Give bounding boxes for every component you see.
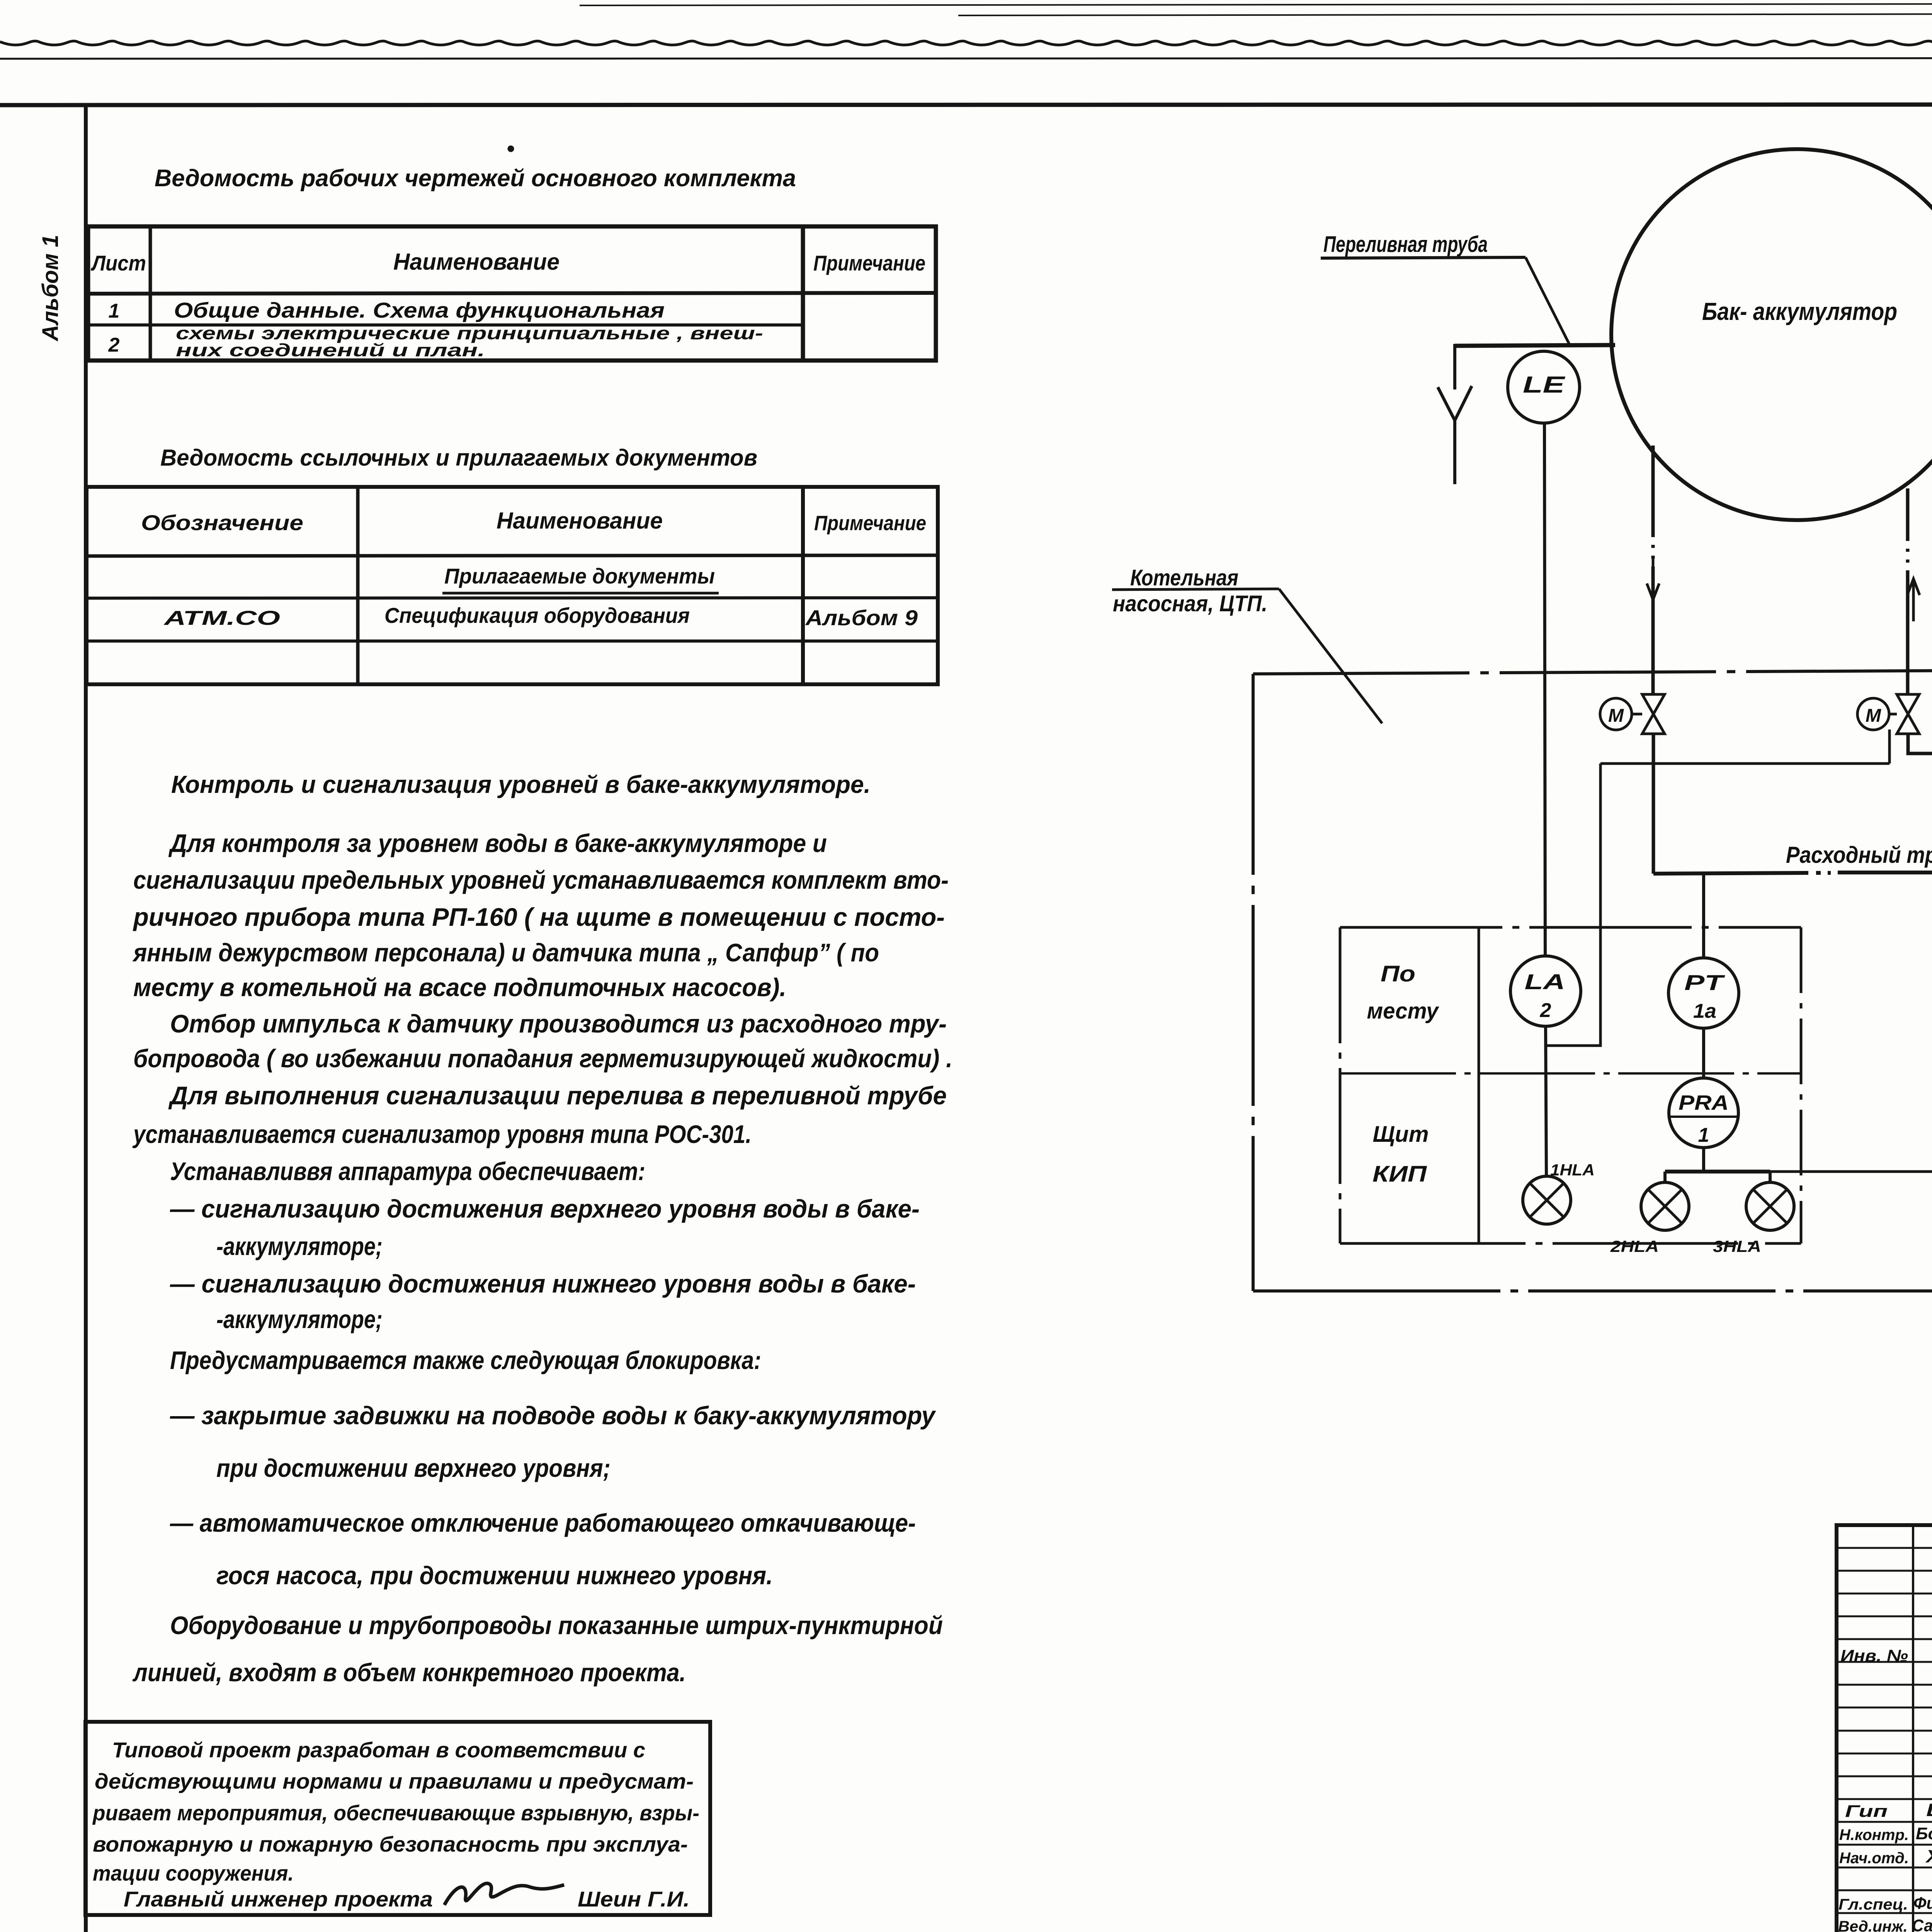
svg-text:Котельная: Котельная [1130, 565, 1238, 590]
pipe consumption line [1653, 872, 1932, 874]
node notes text [132, 770, 952, 1687]
svg-text:2: 2 [108, 334, 120, 356]
motor M2 [1857, 698, 1889, 730]
svg-text:Примечание: Примечание [814, 512, 926, 535]
lamp 2HLA [1610, 1182, 1689, 1255]
svg-text:Общие данные. Схема функцио: Общие данные. Схема функциональная [174, 298, 665, 322]
svg-text:месту в котельной на в: месту в котельной на всасе подпиточных н… [133, 973, 786, 1002]
svg-text:ричного прибора типа РП-: ричного прибора типа РП-160 ( на щите в … [133, 903, 945, 931]
svg-text:при достижении верхнего: при достижении верхнего уровня; [216, 1454, 611, 1482]
svg-text:Лист: Лист [90, 251, 146, 275]
svg-text:1: 1 [109, 300, 120, 322]
svg-text:1: 1 [1698, 1124, 1709, 1146]
instrument LA2 [1510, 956, 1581, 1026]
svg-text:Болотова: Болотова [1916, 1824, 1932, 1843]
svg-text:тации сооружения.: тации сооружения. [93, 1861, 294, 1885]
svg-text:ривает мероприятия, обеспе: ривает мероприятия, обеспечивающие взрыв… [92, 1801, 699, 1825]
pipe tank outlet left [1651, 446, 1655, 694]
node title texts [1840, 1539, 1932, 1932]
svg-text:Спецификация оборудования: Спецификация оборудования [384, 603, 690, 628]
svg-text:сигнализации предельных у: сигнализации предельных уровней устанавл… [133, 866, 949, 894]
instrument LE [1508, 351, 1580, 423]
wire LA to lamp [1546, 1026, 1546, 1176]
svg-text:1a: 1a [1693, 1000, 1716, 1022]
svg-text:3HLA: 3HLA [1713, 1237, 1761, 1255]
svg-text:действующими нормами и: действующими нормами и правилами и преду… [95, 1769, 694, 1793]
svg-text:Хаит: Хаит [1925, 1846, 1932, 1866]
svg-text:Бак- аккумулятор: Бак- аккумулятор [1702, 298, 1897, 325]
svg-text:Саваськова: Саваськова [1912, 1916, 1932, 1932]
svg-text:гося насоса, при достиже: гося насоса, при достижении нижнего уров… [216, 1561, 773, 1590]
node statement box [85, 1722, 710, 1915]
svg-text:По: По [1381, 961, 1415, 986]
svg-text:Нач.отд.: Нач.отд. [1839, 1850, 1909, 1867]
wire [84, 105, 88, 1932]
svg-text:— закрытие задвижки на: — закрытие задвижки на подводе воды к ба… [170, 1401, 936, 1430]
svg-text:M: M [1608, 706, 1624, 726]
svg-text:устанавливается сигнализатор: устанавливается сигнализатор уровня типа… [132, 1120, 752, 1148]
svg-text:Предусматривается также: Предусматривается также следующая блокир… [170, 1346, 761, 1374]
svg-text:2HLA: 2HLA [1610, 1237, 1659, 1255]
svg-text:вопожарную и пожарную бе: вопожарную и пожарную безопасность при э… [93, 1832, 688, 1856]
svg-text:Альбом 9: Альбом 9 [805, 605, 918, 630]
valve V2 motorized [1889, 694, 1919, 734]
motor M1 [1600, 698, 1632, 730]
svg-text:Переливная труба: Переливная труба [1323, 232, 1488, 257]
wire make-up pump to PRA [1770, 917, 1932, 1172]
svg-text:LA: LA [1525, 969, 1565, 994]
svg-text:Ведомость рабочих чертеж: Ведомость рабочих чертежей основного ком… [155, 165, 796, 192]
svg-text:Гип: Гип [1845, 1802, 1888, 1821]
svg-text:Вед.инж.: Вед.инж. [1838, 1918, 1908, 1932]
svg-text:-аккумуляторе;: -аккумуляторе; [216, 1232, 383, 1260]
svg-text:PT: PT [1684, 970, 1726, 995]
wire PT tap [1702, 874, 1705, 958]
ground drain-funnel [1438, 386, 1472, 484]
svg-text:Отбор импульса к датчику: Отбор импульса к датчику производится из… [170, 1009, 947, 1038]
node table2 [87, 487, 938, 684]
svg-text:— сигнализацию достижения: — сигнализацию достижения верхнего уровн… [170, 1194, 920, 1223]
svg-text:КИП: КИП [1372, 1162, 1427, 1187]
svg-text:Главный инженер проекта: Главный инженер проекта [124, 1887, 433, 1911]
svg-text:Типовой проект разработан: Типовой проект разработан в соответствии… [112, 1738, 645, 1762]
node table1 [88, 226, 936, 361]
node location table [1340, 927, 1801, 1243]
svg-text:Расходный трубопровод: Расходный трубопровод [1786, 842, 1932, 868]
pipe tank inlet right [1906, 488, 1910, 694]
node title block [1837, 1525, 1932, 1932]
node boiler-room label [1112, 565, 1382, 723]
svg-text:Гл.спец.: Гл.спец. [1838, 1896, 1908, 1913]
svg-text:Щит: Щит [1373, 1122, 1429, 1147]
svg-text:PRA: PRA [1679, 1091, 1729, 1114]
svg-text:1HLA: 1HLA [1550, 1161, 1595, 1179]
svg-text:Устанавливвя аппаратура: Устанавливвя аппаратура обеспечивает: [170, 1157, 645, 1185]
wire LE signal [1544, 423, 1545, 956]
svg-text:LE: LE [1523, 372, 1566, 398]
node overflow-pipe label [1321, 232, 1570, 345]
wire actuator impulse [1547, 730, 1889, 1046]
svg-text:месту: месту [1367, 998, 1440, 1024]
svg-text:Инв. №: Инв. № [1840, 1646, 1908, 1665]
svg-text:бопровода ( во избежании: бопровода ( во избежании попадания герме… [133, 1044, 952, 1073]
svg-text:2: 2 [1540, 999, 1551, 1022]
svg-text:линией, входят в объем: линией, входят в объем конкретного проек… [132, 1658, 686, 1687]
pipe V1 to consumption line [1652, 734, 1655, 874]
instrument PT1a [1668, 958, 1739, 1028]
wire PRA outputs bus [1665, 1148, 1770, 1182]
wire flow-arrow down [1647, 556, 1659, 600]
svg-text:Оборудование и трубопровод: Оборудование и трубопроводы показанные ш… [170, 1611, 943, 1639]
svg-text:— автоматическое отключен: — автоматическое отключение работающего … [170, 1509, 916, 1537]
tank B1 [1611, 149, 1932, 520]
svg-text:-аккумуляторе;: -аккумуляторе; [216, 1305, 383, 1333]
pipe overflow [1455, 344, 1615, 389]
node boiler-room box [1253, 667, 1932, 1291]
svg-text:Для контроля за уровнем: Для контроля за уровнем воды в баке-акку… [168, 829, 827, 857]
wire [0, 104, 1932, 105]
svg-text:янным дежурством персонал: янным дежурством персонала) и датчика ти… [132, 938, 879, 967]
instrument PRA1 [1669, 1078, 1738, 1148]
wire [580, 4, 1932, 5]
svg-text:— сигнализацию достижения: — сигнализацию достижения нижнего уровня… [170, 1269, 916, 1298]
node signature rows [1838, 1800, 1932, 1932]
lamp 1HLA [1523, 1161, 1595, 1224]
wire [0, 58, 1932, 59]
svg-text:насосная, ЦТП.: насосная, ЦТП. [1113, 591, 1267, 616]
pipe V2 elbow to feed line [1908, 734, 1932, 753]
svg-text:Наименование: Наименование [497, 508, 663, 534]
svg-text:Шеин Г.И.: Шеин Г.И. [578, 1887, 690, 1911]
svg-text:Наименование: Наименование [393, 249, 560, 275]
wire flow-arrow up [1907, 579, 1920, 621]
svg-text:Филиппова: Филиппова [1913, 1894, 1932, 1913]
svg-text:Н.контр.: Н.контр. [1839, 1827, 1909, 1844]
svg-text:них соединений и план.: них соединений и план. [176, 340, 485, 360]
lamp 3HLA [1713, 1182, 1794, 1255]
wire [0, 41, 1932, 45]
svg-text:АТМ.СО: АТМ.СО [163, 607, 280, 629]
svg-text:Для выполнения сигнализац: Для выполнения сигнализации перелива в п… [168, 1081, 947, 1110]
svg-text:Обозначение: Обозначение [141, 510, 303, 535]
svg-text:Ведомость ссылочных и п: Ведомость ссылочных и прилагаемых докуме… [160, 445, 757, 471]
svg-text:Прилагаемые документы: Прилагаемые документы [444, 564, 715, 588]
svg-text:M: M [1866, 706, 1881, 726]
svg-text:Альбом 1: Альбом 1 [38, 235, 63, 342]
svg-text:Контроль и сигнализация у: Контроль и сигнализация уровней в баке-а… [171, 770, 871, 798]
wire PT to PRA [1702, 1028, 1705, 1078]
valve V1 motorized [1632, 694, 1665, 734]
svg-text:Примечание: Примечание [813, 251, 925, 275]
svg-text:Шейн: Шейн [1926, 1800, 1932, 1820]
